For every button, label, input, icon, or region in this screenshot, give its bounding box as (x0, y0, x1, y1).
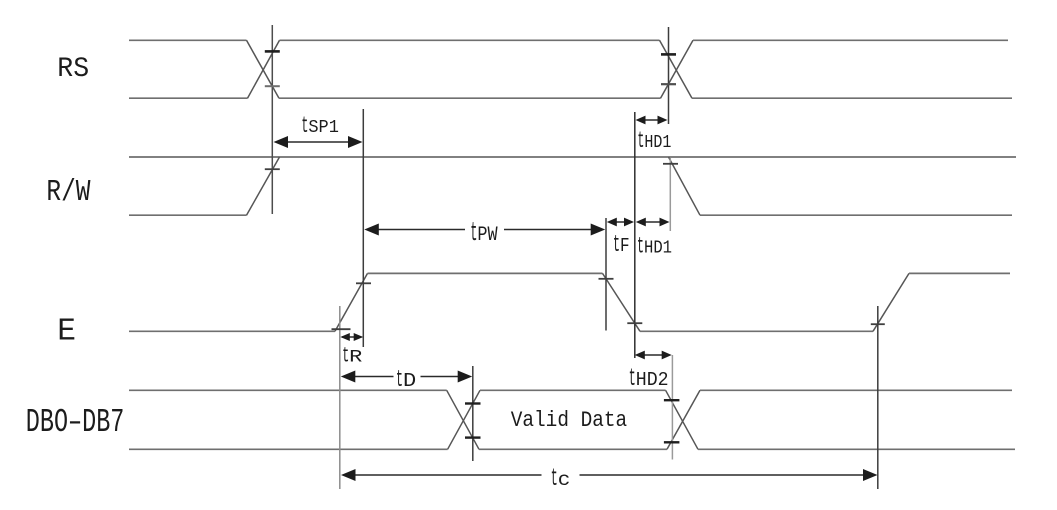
RS crossover 1 falling slope (247, 40, 280, 98)
arrow tC (344, 474, 542, 476)
arrow tD (344, 376, 394, 378)
E falling transition (603, 273, 641, 331)
wire DB0-DB7 high rail left (129, 389, 447, 391)
wire RS high rail right (693, 39, 1008, 41)
arrow tHD2 (637, 354, 669, 356)
DB crossover 1 falling slope (447, 390, 479, 449)
DB crossover 1 rising slope (448, 390, 480, 449)
RS crossover 2 rising slope (661, 40, 694, 98)
arrow tR (342, 336, 362, 338)
wire R/W low rail left (129, 214, 247, 216)
wire E low rail middle (640, 330, 873, 332)
svg-text:t: t (613, 232, 620, 259)
svg-text:SP1: SP1 (308, 118, 339, 138)
svg-text:HD1: HD1 (644, 238, 672, 258)
svg-text:Valid Data: Valid Data (511, 408, 627, 433)
arrow tPW (367, 229, 465, 231)
tick E transition start on low rail (332, 328, 351, 330)
tick DB crossover 2 upper (664, 399, 680, 401)
svg-text:D: D (403, 370, 416, 392)
marker line V6 tF right (634, 112, 636, 358)
tick E falling transition at V5 (599, 278, 614, 280)
svg-text:HD1: HD1 (644, 133, 671, 153)
RS crossover 1 rising slope (248, 40, 280, 98)
DB crossover 2 falling slope (666, 390, 698, 449)
wire valid-data low rail (479, 448, 667, 450)
tick RS crossover 2 upper (661, 53, 676, 56)
svg-text:c: c (558, 469, 571, 491)
marker line V4 tD right (472, 366, 474, 461)
svg-text:t: t (342, 343, 349, 368)
marker line V7 at RS crossover 2 (668, 27, 670, 124)
svg-text:R: R (349, 348, 362, 367)
marker line V9 tC right (877, 306, 879, 489)
svg-text:t: t (637, 233, 644, 259)
R/W rising transition (247, 157, 280, 215)
wire DB0-DB7 low rail right (698, 448, 1015, 450)
arrow tHD1 bottom (638, 221, 667, 223)
arrow tHD1 top (638, 119, 665, 121)
marker line V5 tPW right (605, 218, 607, 331)
wire RS high rail left (129, 39, 247, 41)
svg-text:R/W: R/W (46, 176, 91, 210)
marker line V7b tHD1 bottom right (669, 158, 671, 231)
tick RS crossover 2 lower (661, 83, 676, 85)
wire E high rail right (909, 272, 1010, 274)
arrow tSP1 (276, 141, 360, 143)
wire RS low rail middle (279, 97, 661, 99)
svg-text:DBO–DB7: DBO–DB7 (26, 404, 125, 441)
wire DB0-DB7 low rail left (129, 448, 448, 450)
marker line V1 at RS crossover 1 (271, 25, 273, 214)
svg-text:t: t (551, 465, 558, 493)
RS crossover 2 falling slope (660, 40, 693, 98)
marker line V8 tHD2 right (671, 355, 673, 460)
wire DB0-DB7 high rail right (700, 389, 1012, 391)
arrow tF (609, 221, 631, 223)
tick DB crossover 1 upper (465, 402, 481, 404)
svg-text:HD2: HD2 (636, 369, 669, 391)
svg-text:t: t (470, 218, 477, 248)
tick R/W falling transition (663, 163, 678, 165)
svg-text:F: F (620, 235, 630, 257)
E rising transition 1 (335, 273, 368, 331)
E rising transition 2 (873, 273, 909, 331)
svg-text:t: t (301, 113, 308, 139)
wire R/W low rail right (700, 214, 1012, 216)
marker line V3 tC left (339, 306, 341, 489)
wire valid-data high rail (480, 389, 666, 391)
tick R/W rising transition (265, 168, 280, 170)
tick E rising transition 1 (356, 282, 371, 284)
wire RS low rail left (129, 97, 248, 99)
wire R/W high rail full width (129, 156, 1016, 158)
svg-text:E: E (57, 315, 76, 350)
wire E high rail (368, 272, 603, 274)
R/W falling transition (669, 157, 701, 215)
tick RS crossover 1 upper (265, 50, 280, 53)
tick E falling transition at V6 (627, 322, 642, 324)
wire RS high rail middle (280, 39, 660, 41)
svg-text:t: t (629, 365, 636, 393)
svg-text:PW: PW (477, 224, 498, 247)
tick E rising transition 2 (871, 323, 885, 325)
tick DB crossover 2 lower (664, 441, 680, 443)
DB crossover 2 rising slope (667, 390, 700, 449)
marker line V2 tSP1 right (362, 109, 364, 347)
svg-text:RS: RS (57, 54, 89, 85)
tick DB crossover 1 lower (465, 436, 481, 438)
wire E low rail left (129, 330, 335, 332)
svg-text:t: t (637, 129, 644, 155)
tick RS crossover 1 lower (265, 85, 280, 87)
wire RS low rail right (692, 97, 1012, 99)
